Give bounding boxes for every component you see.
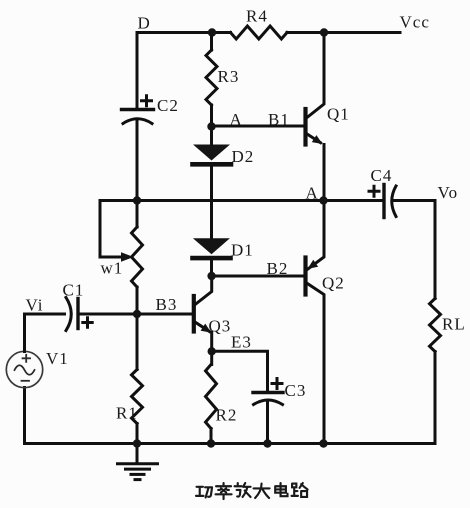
wire B3 net C1 to Q3 base: [78, 313, 194, 316]
value label w1: [101, 259, 124, 278]
node B2 junction below D1: [207, 272, 215, 280]
value label V1: [46, 349, 69, 368]
node label D: [138, 14, 151, 33]
svg-text:A: A: [230, 110, 243, 129]
node label A output: [306, 184, 319, 203]
resistor R1: [132, 314, 143, 444]
node D top-left junction: [208, 28, 216, 36]
wire B1 net node A to Q1 base: [212, 125, 306, 128]
wire C3 to bottom rail: [266, 401, 269, 444]
capacitor C2: [122, 110, 154, 124]
svg-text:Q1: Q1: [327, 105, 350, 124]
capacitor C4: [384, 185, 396, 218]
caption glyph da: [254, 484, 270, 498]
value label C3: [285, 381, 307, 400]
svg-text:B3: B3: [156, 295, 178, 314]
wire bottom rail: [25, 442, 436, 445]
wire node A to C4: [324, 199, 384, 202]
svg-text:D1: D1: [231, 241, 254, 260]
value label RL: [442, 315, 466, 334]
resistor R2: [206, 351, 217, 443]
value label C1: [63, 281, 85, 300]
caption 功率放大电路: [196, 483, 308, 499]
node junction C2 w1: [133, 196, 141, 204]
svg-text:Q2: Q2: [322, 274, 345, 293]
wire E3 net to C3: [212, 351, 268, 392]
svg-text:V1: V1: [46, 349, 69, 368]
wire left drop from D to C2: [136, 33, 139, 109]
node label Vo: [438, 183, 459, 202]
svg-text:C3: C3: [285, 381, 307, 400]
svg-text:C2: C2: [157, 96, 179, 115]
value label C2: [157, 96, 179, 115]
node ground junction: [133, 439, 141, 447]
emitter arrowhead of Q2: [308, 260, 319, 269]
node label Vi: [26, 296, 44, 315]
value label Q2: [322, 274, 345, 293]
caption glyph gong: [196, 487, 212, 498]
wire right riser to RL: [434, 201, 437, 299]
svg-text:Vcc: Vcc: [400, 13, 430, 32]
svg-text:RL: RL: [442, 315, 466, 334]
value label C4: [371, 166, 393, 185]
node B3 junction: [133, 310, 141, 318]
svg-text:A: A: [306, 184, 319, 203]
node E3 junction: [208, 347, 216, 355]
wiper arrowhead of w1: [121, 252, 134, 261]
svg-text:R3: R3: [218, 67, 240, 86]
value label Q1: [327, 105, 350, 124]
svg-text:Vi: Vi: [26, 296, 44, 315]
svg-text:E3: E3: [231, 333, 252, 352]
node top-right junction at Q1 collector: [320, 28, 328, 36]
node label B3: [156, 295, 178, 314]
node label B1: [268, 110, 290, 129]
svg-text:C4: C4: [371, 166, 393, 185]
node Q2 bottom junction: [319, 439, 327, 447]
transistor Q3: [194, 276, 212, 351]
svg-text:D2: D2: [232, 147, 255, 166]
resistor R3: [206, 33, 217, 127]
caption glyph dian: [275, 483, 287, 496]
wire V1 to bottom rail: [23, 388, 26, 444]
node label E3: [231, 333, 252, 352]
wire top rail right of R4 to Vcc: [287, 31, 400, 34]
svg-text:D: D: [138, 14, 151, 33]
resistor RL: [430, 299, 441, 444]
node R2 bottom junction: [207, 439, 215, 447]
wire w1 wiper loop: [100, 201, 122, 258]
source V1: [6, 351, 42, 387]
svg-text:B2: B2: [267, 259, 289, 278]
capacitor C1: [66, 298, 78, 331]
ground: [118, 444, 158, 480]
svg-text:R2: R2: [216, 406, 238, 425]
wire long horizontal net at y=200: [100, 199, 324, 202]
value label Q3: [209, 317, 232, 336]
diode D2: [193, 127, 232, 239]
node label B2: [267, 259, 289, 278]
wire top rail left of R4: [137, 31, 231, 34]
wire B2 net to Q2 base: [212, 275, 306, 278]
value label R1: [116, 404, 138, 423]
svg-text:Vo: Vo: [438, 183, 459, 202]
value label D1: [231, 241, 254, 260]
svg-text:R1: R1: [116, 404, 138, 423]
caption glyph lu: [292, 483, 308, 497]
transistor Q2: [306, 201, 325, 444]
transistor Q1: [306, 33, 325, 201]
diode D1: [193, 238, 231, 276]
capacitor C3: [253, 393, 283, 405]
svg-text:w1: w1: [101, 259, 124, 278]
node label A upper: [230, 110, 243, 129]
svg-text:Q3: Q3: [209, 317, 232, 336]
value label R4: [246, 7, 268, 26]
svg-text:B1: B1: [268, 110, 290, 129]
plus sign of C3: [272, 379, 282, 389]
plus sign of C4: [369, 186, 379, 196]
wire C2 to node: [136, 120, 139, 201]
plus sign of C1: [83, 318, 92, 327]
node C3 bottom junction: [263, 439, 271, 447]
svg-text:R4: R4: [246, 7, 268, 26]
power label Vcc: [400, 13, 430, 32]
potentiometer w1: [132, 201, 143, 315]
value label R3: [218, 67, 240, 86]
caption glyph fang: [235, 483, 251, 497]
node A output junction: [319, 196, 327, 204]
plus sign of C2: [142, 96, 152, 106]
node A junction above D2: [207, 122, 215, 130]
emitter arrowhead of Q1: [312, 135, 323, 144]
svg-text:C1: C1: [63, 281, 85, 300]
wire V1 to C1: [25, 314, 65, 352]
value label D2: [232, 147, 255, 166]
resistor R4: [231, 26, 288, 39]
caption glyph lv: [216, 483, 232, 499]
value label R2: [216, 406, 238, 425]
emitter arrowhead of Q3: [201, 324, 212, 333]
wire C4 to Vo corner: [393, 199, 436, 202]
